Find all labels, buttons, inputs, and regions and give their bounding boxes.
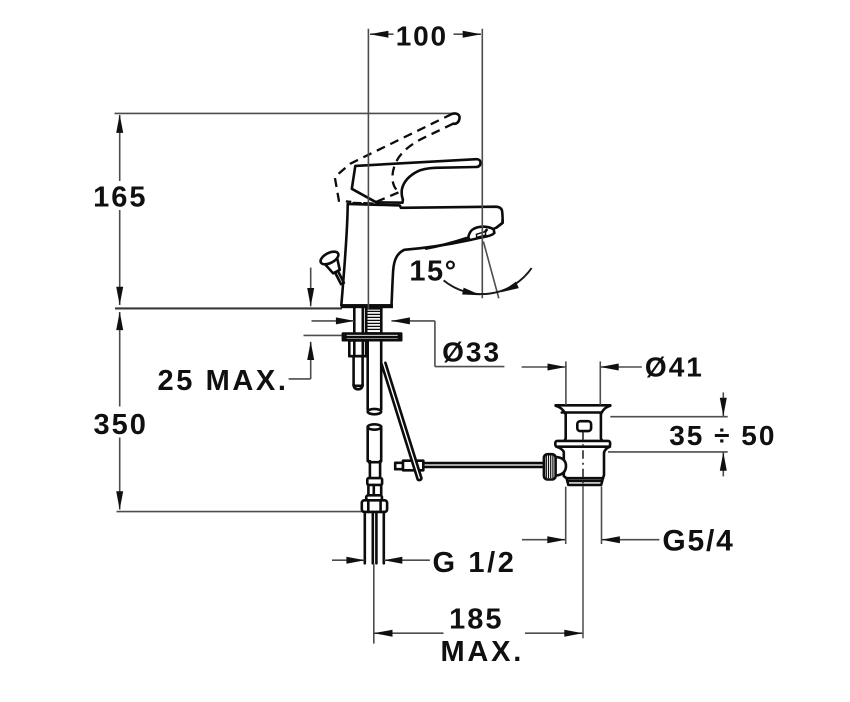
lever raised (dashed): top edge + rear quad — [335, 114, 453, 202]
threaded shank — [366, 308, 381, 333]
svg-text:MAX.: MAX. — [440, 636, 524, 668]
svg-text:25 MAX.: 25 MAX. — [157, 365, 288, 397]
knurled knob — [544, 454, 556, 479]
drain flange — [556, 404, 611, 407]
rod end cap — [395, 463, 403, 469]
dimension 15 degrees: tilted line — [483, 242, 498, 299]
pop-up rod stud below flange — [349, 340, 366, 356]
drain collar — [555, 441, 610, 447]
G1/2 fitting stack — [369, 461, 372, 478]
dimension 350 — [119, 312, 121, 407]
supply pipe upper segment — [366, 340, 369, 409]
mounting flange plate — [343, 334, 401, 341]
dimension 100 extension lines — [367, 29, 369, 309]
extension line flange left (25 MAX) — [304, 334, 344, 336]
lever raised (dashed): bottom edge / neck curve — [392, 124, 453, 192]
dimension 25 MAX — [310, 268, 312, 307]
clamp block — [403, 461, 423, 471]
dimension 185 MAX — [373, 564, 375, 644]
lever (closed position) — [352, 159, 481, 203]
dimension 165 — [119, 115, 121, 181]
aerator on spout end — [468, 227, 494, 240]
dimension G1/2 — [332, 559, 365, 561]
extension line deck surface — [115, 307, 342, 309]
svg-text:G 1/2: G 1/2 — [433, 547, 517, 579]
drain lower body — [556, 447, 566, 479]
dimension O33 — [312, 320, 355, 322]
svg-text:35 ÷ 50: 35 ÷ 50 — [669, 420, 776, 451]
lever raised tip cap (solid) — [452, 113, 459, 123]
extension line bottom (350 dim, at G1/2 nut) — [117, 511, 362, 513]
pop-up rod tube below deck — [353, 308, 356, 333]
svg-text:185: 185 — [449, 603, 503, 635]
dimension 100 — [370, 33, 394, 35]
svg-text:G5/4: G5/4 — [662, 525, 734, 558]
svg-text:350: 350 — [94, 409, 148, 441]
pop-up diagonal rod — [382, 363, 422, 480]
G1/2 nut — [362, 500, 387, 512]
faucet base thick bar — [341, 304, 393, 308]
svg-text:15°: 15° — [409, 255, 457, 287]
lever raised (dashed): diagonal to pivot — [376, 192, 399, 202]
svg-text:Ø41: Ø41 — [645, 352, 704, 383]
spout underside second line — [426, 238, 466, 249]
dimension O41 — [565, 361, 567, 405]
dimension 35-50 — [610, 416, 727, 418]
svg-text:165: 165 — [93, 181, 147, 213]
linkage horizontal rod — [398, 462, 543, 465]
drain upper body — [564, 414, 566, 441]
cartridge seam ticks — [354, 202, 361, 205]
overflow window — [577, 421, 591, 431]
faucet body — [341, 204, 502, 306]
extension line top (165 dim, lever top) — [115, 112, 453, 114]
pop-up rod knob — [319, 249, 351, 288]
svg-text:Ø33: Ø33 — [442, 337, 501, 368]
svg-text:100: 100 — [396, 20, 448, 51]
knob housing bump — [556, 457, 566, 476]
drain centerline (dash-dot) — [582, 432, 584, 486]
15 degrees arc — [444, 268, 532, 294]
drain threaded tail — [567, 477, 603, 480]
supply pipe lower segment (after break) — [368, 424, 382, 429]
dimension G5/4 — [565, 487, 567, 544]
pipe below nut — [363, 512, 366, 563]
